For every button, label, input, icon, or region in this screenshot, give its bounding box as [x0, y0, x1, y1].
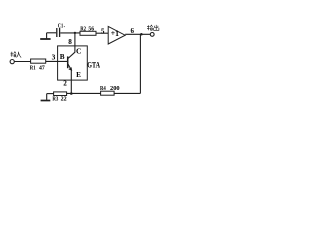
svg-text:R322: R322 — [52, 96, 66, 103]
node junction J2 (output node) — [140, 33, 143, 36]
transistor Q1 base bar — [67, 56, 69, 68]
svg-text:8: 8 — [68, 38, 72, 46]
wire R4 to emitter node — [67, 92, 101, 94]
wire emitter down to J3 — [70, 70, 72, 93]
node junction J3 (emitter node) — [70, 92, 73, 95]
svg-text:R147: R147 — [30, 64, 45, 71]
op-amp U1 (+1 buffer) — [108, 26, 125, 44]
resistor R4 — [101, 91, 115, 95]
wire output node down (right vertical rail) — [139, 34, 141, 93]
svg-text:B: B — [60, 53, 65, 61]
wire R1 to base (pin 3) — [46, 60, 67, 62]
wire R2 to op-amp pin 5 — [96, 32, 108, 34]
transistor box (IC GTA outline) — [58, 46, 88, 80]
resistor R3 — [54, 92, 67, 96]
svg-text:E: E — [76, 71, 81, 79]
svg-text:+1: +1 — [111, 28, 119, 38]
resistor R2 — [80, 31, 96, 35]
wire R3 to ground — [47, 93, 54, 95]
ground (top-left, C1 input ground) — [40, 33, 50, 39]
capacitor C1 — [57, 28, 60, 37]
wire op-amp output to output terminal — [125, 33, 150, 35]
label 输入 (input) — [11, 52, 22, 58]
wire C1 to R2 — [60, 32, 80, 34]
wire input terminal to R1 — [14, 61, 30, 63]
output terminal — [150, 33, 154, 37]
svg-text:C1: C1 — [58, 22, 63, 29]
svg-text:5: 5 — [101, 28, 105, 36]
node junction J1 (top rail to collector) — [74, 32, 76, 34]
label 输出 (output) — [147, 25, 159, 30]
input terminal — [10, 60, 14, 64]
svg-text:C: C — [76, 47, 81, 56]
ground (bottom-left, R3 ground) — [41, 94, 51, 101]
transistor Q1 emitter with arrow — [68, 64, 71, 70]
svg-text:2: 2 — [63, 80, 67, 88]
svg-text:GTA: GTA — [87, 60, 100, 69]
svg-text:3: 3 — [52, 53, 56, 62]
wire bottom rail right segment — [114, 92, 140, 94]
svg-text:6: 6 — [130, 27, 134, 35]
wire ground to C1 left plate — [47, 32, 57, 34]
svg-text:R4200: R4200 — [100, 85, 120, 92]
resistor R1 — [31, 59, 46, 63]
wire collector to top rail — [68, 33, 75, 59]
